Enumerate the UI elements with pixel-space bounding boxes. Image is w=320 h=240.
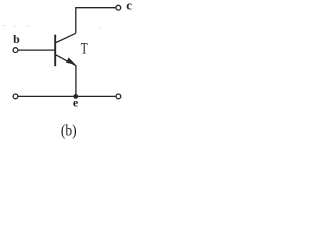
faint scan specks (decorative) <box>3 25 101 28</box>
wire collector to c <box>76 8 116 34</box>
wire base <box>19 49 55 51</box>
transistor T emitter lead <box>56 55 76 66</box>
wire emitter to rail <box>75 65 77 96</box>
svg-text:c: c <box>126 0 132 12</box>
svg-text:e: e <box>73 96 79 110</box>
emitter arrowhead <box>66 58 75 65</box>
terminal b <box>13 48 18 53</box>
transistor T base bar <box>54 35 56 67</box>
svg-text:(b): (b) <box>61 123 77 140</box>
junction dot e <box>73 94 78 99</box>
bottom rail wire <box>19 95 116 97</box>
terminal c <box>116 5 121 10</box>
terminal bottom-left <box>13 94 18 99</box>
svg-text:b: b <box>13 32 20 46</box>
transistor T collector lead <box>56 33 76 42</box>
svg-text:T: T <box>81 41 88 58</box>
terminal bottom-right <box>116 94 121 99</box>
